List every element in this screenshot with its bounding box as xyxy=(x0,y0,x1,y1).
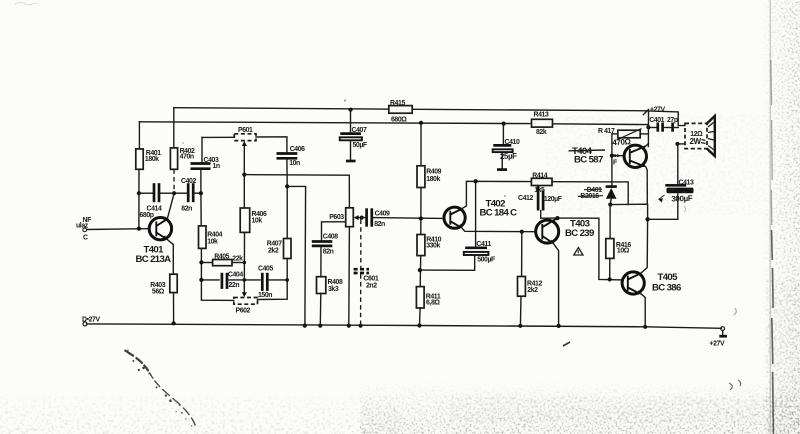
capacitor C407 xyxy=(340,110,367,161)
svg-text:C408: C408 xyxy=(323,233,338,240)
capacitor C408 xyxy=(312,233,338,276)
wire R402 top branch xyxy=(173,108,175,148)
junction bias node xyxy=(608,203,612,207)
wire feedback line to P603 xyxy=(244,175,349,208)
node F annotation xyxy=(613,154,621,167)
diode D401 xyxy=(578,187,617,205)
svg-text:BC 386: BC 386 xyxy=(652,282,681,293)
svg-text:+27V: +27V xyxy=(710,340,725,347)
potentiometer P602 xyxy=(234,298,258,315)
wire R404 bottom chain xyxy=(201,248,233,300)
svg-text:2n2: 2n2 xyxy=(366,282,377,289)
svg-text:R408: R408 xyxy=(328,279,343,286)
junction T403 collector node xyxy=(555,216,559,220)
junction base tap xyxy=(610,154,614,158)
wire R402 dashed lead xyxy=(173,169,175,193)
node +27V bottom right terminal xyxy=(710,327,728,348)
junction R412 tap xyxy=(520,230,524,234)
resistor R414 xyxy=(531,172,552,194)
capacitor C403 xyxy=(191,137,220,193)
svg-text:BC 239: BC 239 xyxy=(565,228,594,239)
wire output node to C413 xyxy=(648,194,678,219)
resistor R412 xyxy=(518,232,543,297)
svg-text:1n: 1n xyxy=(213,163,220,170)
junction wiper C409 C601 node xyxy=(360,216,364,220)
wire T402 collector up xyxy=(462,181,531,208)
wire R406 bottom to R405 node and P602 wiper xyxy=(242,232,247,297)
warning triangle annotation xyxy=(574,248,583,256)
wire bias node line xyxy=(610,204,647,219)
wire C402 node to R404 xyxy=(200,193,202,226)
junction bootstrap node xyxy=(473,179,477,183)
wire T404 emitter down xyxy=(646,167,648,204)
junction speaker bottom node xyxy=(675,142,679,146)
junction R407 C405 node xyxy=(285,278,289,282)
wire R410 to R411 xyxy=(419,256,422,287)
wire input to T401 base xyxy=(87,228,149,231)
SECTION: artifacts xyxy=(124,350,195,427)
svg-text:C: C xyxy=(83,235,88,242)
capacitor C401 xyxy=(648,117,678,132)
svg-text:P601: P601 xyxy=(238,127,253,134)
junction bus dots xyxy=(172,321,648,329)
resistor R416 xyxy=(606,205,632,259)
resistor R410 xyxy=(417,235,442,256)
junction C404 line left xyxy=(199,278,203,282)
wire T403 collector to T405 base xyxy=(558,218,623,280)
potentiometer P603 xyxy=(329,208,353,227)
resistor R402 xyxy=(170,148,195,169)
capacitor C413 xyxy=(665,144,694,204)
resistor R408 xyxy=(317,277,343,294)
capacitor C402 xyxy=(174,178,201,213)
wire rail after R413 xyxy=(553,124,649,128)
wire R401 bottom to base line xyxy=(138,169,140,228)
svg-text:500µF: 500µF xyxy=(477,256,495,263)
svg-text:R415: R415 xyxy=(390,100,405,107)
capacitor C414 xyxy=(139,183,174,219)
transistor T401 xyxy=(136,218,172,265)
svg-text:82n: 82n xyxy=(181,206,192,213)
svg-text:C411: C411 xyxy=(476,241,491,248)
wire +27V down to C401 junction and T404 collector xyxy=(647,111,649,147)
junction R405 right node xyxy=(243,261,247,265)
wire T405 emitter to bus xyxy=(641,294,645,327)
svg-text:180k: 180k xyxy=(145,156,159,163)
svg-text:10n: 10n xyxy=(289,160,300,167)
resistor R417 xyxy=(598,128,648,147)
resistor R403 xyxy=(150,274,177,295)
transistor T403 xyxy=(536,218,594,244)
wire speaker bottom xyxy=(677,143,684,145)
svg-text:22k: 22k xyxy=(232,255,243,262)
wire bottom ground bus xyxy=(87,324,722,328)
junction base line tap xyxy=(419,216,423,220)
junction C414 left node xyxy=(137,191,141,195)
transistor T404 xyxy=(569,145,647,167)
svg-text:C405: C405 xyxy=(258,266,273,273)
transistor T402 xyxy=(444,199,517,229)
node +27V top terminal xyxy=(644,106,666,114)
capacitor C405 xyxy=(258,266,287,300)
svg-text:22n: 22n xyxy=(229,282,240,289)
wire P603 bottom to bus xyxy=(348,227,351,326)
svg-text:C409: C409 xyxy=(375,210,390,217)
wire R401 branch xyxy=(138,122,140,149)
speaker LS xyxy=(685,116,715,156)
resistor R415 xyxy=(389,100,412,123)
wire P603 wiper arrow xyxy=(354,215,362,220)
wire T404 base xyxy=(612,155,623,157)
node D+27V input terminal xyxy=(82,316,100,326)
junction base node xyxy=(137,227,141,231)
capacitor C411 bootstrap xyxy=(420,181,495,270)
resistor R411 xyxy=(416,287,440,308)
wire R411 bottom to bus xyxy=(419,308,422,326)
junction C404 C405 mid node xyxy=(243,278,247,282)
resistor R413 xyxy=(532,112,553,136)
junction C407 tap xyxy=(349,108,353,112)
capacitor C406 xyxy=(277,146,306,186)
svg-text:3k3: 3k3 xyxy=(328,286,339,293)
svg-text:10Ω: 10Ω xyxy=(617,248,630,255)
svg-text:P603: P603 xyxy=(329,214,344,221)
junction R405 left xyxy=(199,260,203,264)
wire R414 right to T404 emitter node xyxy=(552,182,628,205)
arrow annotation below C413 xyxy=(658,195,664,203)
wire T401 emitter to R403 xyxy=(167,239,174,274)
svg-text:82n: 82n xyxy=(323,249,334,256)
resistor R404 xyxy=(199,226,223,249)
capacitor C601 dashed xyxy=(354,220,379,326)
svg-text:R405: R405 xyxy=(214,253,229,260)
svg-text:BC 213A: BC 213A xyxy=(136,254,172,265)
resistor R405 xyxy=(201,253,244,265)
wire T403 emitter to bus xyxy=(554,244,559,326)
resistor R407 xyxy=(267,186,291,258)
wire R408 bottom to bus xyxy=(319,294,322,326)
wire R409 chain top xyxy=(420,123,422,166)
potentiometer P601 xyxy=(234,127,256,141)
wire R403 bottom to bus xyxy=(173,293,175,324)
wire rail to R417 and D401 xyxy=(611,134,613,186)
node NF input terminal xyxy=(76,217,91,242)
svg-text:150n: 150n xyxy=(258,292,272,299)
resistor R406 xyxy=(240,208,267,232)
junction C406-R407 node xyxy=(285,184,289,188)
svg-text:680p: 680p xyxy=(140,212,154,219)
resistor R401 xyxy=(136,149,161,169)
svg-text:50µF: 50µF xyxy=(353,142,367,149)
capacitor C409 xyxy=(362,208,444,228)
svg-text:10k: 10k xyxy=(252,218,263,225)
transistor T405 xyxy=(622,272,681,295)
svg-text:330k: 330k xyxy=(426,243,440,250)
junction C411 return node xyxy=(418,268,422,272)
junction R409 tap xyxy=(419,121,423,125)
capacitor C404 xyxy=(201,272,260,289)
svg-text:56Ω: 56Ω xyxy=(152,288,165,295)
junction output node xyxy=(645,217,649,221)
wire rail to speaker top xyxy=(649,111,685,126)
wire top +27V rail xyxy=(174,108,649,111)
junction C410 tap xyxy=(502,122,506,126)
svg-text:C407: C407 xyxy=(352,127,367,134)
junction C402-C403-R404 node xyxy=(199,191,203,195)
capacitor C410 xyxy=(493,124,520,170)
wire P601 right to C406 xyxy=(256,137,287,153)
wire T405 collector up to output node xyxy=(641,219,648,273)
capacitor C412 xyxy=(518,186,562,218)
svg-text:+27V: +27V xyxy=(650,106,665,113)
svg-text:C412: C412 xyxy=(518,195,533,202)
wire P601 left xyxy=(202,136,234,138)
junction C401 node xyxy=(646,125,650,129)
wire second rail (R401 top to R413 to C401) xyxy=(139,122,530,124)
svg-text:BC 184 C: BC 184 C xyxy=(480,207,518,218)
resistor R409 xyxy=(417,166,442,188)
wire R409 to R410 xyxy=(420,188,422,235)
junction R416 base node xyxy=(608,277,612,281)
svg-text:C404: C404 xyxy=(228,272,243,279)
wire R407 bottom to P602 right xyxy=(258,259,288,300)
wire T402 emitter line to T403 base xyxy=(462,228,535,232)
svg-text:ulaz: ulaz xyxy=(76,223,89,230)
svg-text:2k2: 2k2 xyxy=(527,287,538,294)
wire C408 top stub xyxy=(322,222,346,240)
svg-text:82n: 82n xyxy=(374,221,385,228)
wire P601 wiper to R406 xyxy=(242,141,247,208)
svg-text:R409: R409 xyxy=(426,169,441,176)
wire T401 collector xyxy=(167,193,174,219)
svg-text:P602: P602 xyxy=(236,308,251,315)
wire R412 bottom to bus xyxy=(519,296,522,326)
svg-text:C402: C402 xyxy=(181,178,196,185)
svg-text:6,8Ω: 6,8Ω xyxy=(426,300,440,307)
svg-text:C410: C410 xyxy=(505,139,520,146)
svg-text:10k: 10k xyxy=(207,238,218,245)
junction feedback line tap xyxy=(242,173,246,177)
svg-text:470n: 470n xyxy=(180,154,194,161)
wire T404 collector up xyxy=(646,144,649,147)
svg-text:C406: C406 xyxy=(290,146,305,153)
svg-text:680Ω: 680Ω xyxy=(391,117,407,124)
svg-text:D•27V: D•27V xyxy=(82,316,100,323)
svg-text:180k: 180k xyxy=(426,176,440,183)
wire node to bus drop xyxy=(287,186,305,325)
svg-text:2k2: 2k2 xyxy=(268,248,279,255)
wire R416 bottom to T405 base xyxy=(609,258,611,279)
junction collector node xyxy=(172,191,176,195)
svg-text:25µF: 25µF xyxy=(500,151,518,161)
